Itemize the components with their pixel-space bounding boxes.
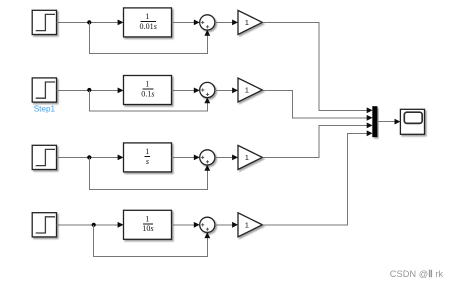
wire sum to gain (row 2): [215, 89, 233, 91]
transfer-function block 1/0.1s (row 2): [124, 76, 172, 105]
svg-text:0.01s: 0.01s: [140, 22, 157, 31]
wire step3 output to transfer fcn (row 3): [57, 156, 119, 158]
svg-text:1: 1: [245, 86, 249, 95]
svg-text:1: 1: [245, 221, 249, 230]
transfer-function block 1/s (row 3): [124, 143, 172, 172]
gain block value 1 (row 4): [238, 213, 262, 237]
plus sign bottom input (row 2): [206, 93, 209, 96]
sum junction (row 3): [200, 150, 215, 165]
wire sum to gain (row 3): [215, 156, 233, 158]
wire transfer fcn to sum (row 4): [172, 224, 195, 226]
transfer-function block 1/10s (row 4): [124, 210, 172, 239]
plus sign left input (row 2): [201, 88, 204, 91]
sum junction (row 1): [200, 15, 215, 30]
svg-text:1: 1: [145, 215, 149, 224]
plus sign bottom input (row 4): [206, 228, 209, 231]
wire step1 output to transfer fcn (row 1): [57, 21, 119, 23]
wire mux to scope: [377, 121, 395, 123]
step waveform glyph (row 4): [36, 217, 55, 233]
step waveform glyph (row 1): [36, 14, 55, 30]
step waveform glyph (row 3): [36, 149, 55, 165]
wire branch to sum bottom input (row 3): [89, 157, 207, 189]
scope screen: [404, 112, 422, 123]
gain block value 1 (row 1): [238, 10, 262, 34]
plus sign left input (row 4): [201, 223, 204, 226]
wire gain output to mux input 1 (row 1): [262, 22, 367, 110]
svg-text:0.1s: 0.1s: [141, 89, 154, 98]
step source block Step (row 1): [32, 10, 56, 34]
wire branch to sum bottom input (row 4): [94, 225, 208, 257]
branch node junction (row 1): [87, 20, 91, 24]
step source block Step1 (row 2): [32, 78, 56, 102]
wire transfer fcn to sum (row 2): [172, 89, 195, 91]
branch node junction (row 4): [92, 223, 96, 227]
wire transfer fcn to sum (row 3): [172, 156, 195, 158]
branch node junction (row 2): [87, 88, 91, 92]
plus sign bottom input (row 1): [206, 25, 209, 28]
svg-text:1: 1: [145, 147, 149, 156]
wire step2 output to transfer fcn (row 2): [57, 89, 119, 91]
svg-text:1: 1: [145, 80, 149, 89]
svg-text:1: 1: [245, 18, 249, 27]
svg-text:10s: 10s: [142, 224, 153, 233]
wire transfer fcn to sum (row 1): [172, 21, 195, 23]
svg-text:CSDN @Ⅱ rk: CSDN @Ⅱ rk: [390, 269, 444, 279]
wire sum to gain (row 4): [215, 224, 233, 226]
gain block value 1 (row 2): [238, 78, 262, 102]
wire gain output to mux input 3 (row 3): [262, 125, 367, 157]
wire branch to sum bottom input (row 1): [89, 22, 207, 53]
svg-text:1: 1: [145, 12, 149, 21]
sum junction (row 2): [200, 82, 215, 97]
plus sign bottom input (row 3): [206, 160, 209, 163]
mux block: [373, 107, 378, 137]
step source block Step2 (row 3): [32, 145, 56, 169]
wire gain output to mux input 4 (row 4): [262, 133, 367, 225]
scope block: [400, 109, 424, 134]
transfer-function block 1/0.01s (row 1): [124, 8, 172, 37]
branch node junction (row 3): [87, 155, 91, 159]
svg-text:s: s: [146, 157, 149, 166]
step source block Step3 (row 4): [32, 213, 56, 237]
step waveform glyph (row 2): [36, 82, 55, 98]
svg-text:Step1: Step1: [34, 104, 56, 113]
svg-text:1: 1: [245, 153, 249, 162]
wire sum to gain (row 1): [215, 21, 233, 23]
plus sign left input (row 1): [201, 21, 204, 24]
gain block value 1 (row 3): [238, 145, 262, 169]
plus sign left input (row 3): [201, 156, 204, 159]
sum junction (row 4): [200, 217, 215, 232]
wire gain output to mux input 2 (row 2): [262, 90, 367, 117]
wire branch to sum bottom input (row 2): [89, 90, 207, 111]
wire step4 output to transfer fcn (row 4): [57, 224, 119, 226]
